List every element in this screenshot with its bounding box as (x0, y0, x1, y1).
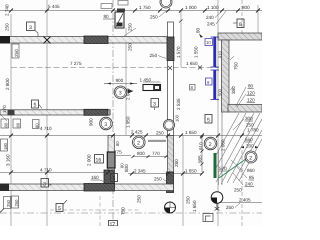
svg-text:2: 2 (209, 142, 212, 148)
label box 17 bottom (109, 221, 118, 227)
svg-text:250: 250 (186, 196, 191, 204)
svg-text:250: 250 (156, 131, 164, 136)
svg-text:775: 775 (114, 150, 122, 155)
svg-text:5: 5 (58, 206, 61, 212)
wall B hatched lower part (168, 136, 174, 173)
svg-text:250: 250 (6, 199, 11, 207)
dash-dot line y=213 (0, 212, 262, 214)
grid dim line y=135.5 (0, 135, 262, 137)
svg-text:5 445: 5 445 (48, 4, 60, 9)
svg-text:1 450: 1 450 (140, 78, 152, 83)
svg-text:80: 80 (196, 27, 201, 33)
svg-text:170: 170 (2, 105, 7, 113)
svg-text:300: 300 (245, 116, 253, 121)
svg-text:3: 3 (119, 91, 122, 97)
tick X at 200,67 (198, 66, 202, 70)
dim line horizontal y=10.5 top chain (0, 10, 262, 12)
svg-text:180: 180 (3, 142, 8, 150)
leader bottom-left corner (0, 114, 7, 121)
wall B dark pier top (167, 37, 174, 61)
svg-text:750: 750 (121, 207, 126, 215)
svg-text:80: 80 (4, 122, 9, 127)
svg-text:2: 2 (137, 141, 140, 147)
wall edge x=218.5 stair (218, 150, 220, 185)
ticks on grid dim line y=135.5 (9, 134, 244, 138)
wall A black pier left (0, 36, 10, 44)
small rect top edge right (118, 1, 128, 6)
svg-text:8: 8 (239, 22, 242, 28)
leaders right mid stack (236, 87, 246, 106)
section marker circle bottom right (211, 192, 223, 204)
wall H bottom horizontal (0, 184, 174, 191)
svg-text:245: 245 (207, 22, 215, 27)
svg-text:80: 80 (104, 14, 110, 19)
wall A dark pier center (84, 36, 108, 44)
dark blob above dim line (117, 9, 125, 12)
svg-text:380: 380 (231, 86, 236, 94)
leaders for 750/380 (230, 56, 234, 60)
ticks on line y=172.5 (9, 171, 204, 176)
svg-text:1 650: 1 650 (192, 200, 197, 212)
axis line vertical x=242 dashed (241, 0, 243, 33)
axis bubble at wall B mid (164, 120, 175, 131)
axis line vertical x=11 (10, 14, 12, 226)
label box 5 bottom center (111, 174, 118, 182)
svg-text:200: 200 (246, 144, 254, 149)
svg-text:860: 860 (247, 168, 255, 173)
svg-text:250: 250 (150, 15, 158, 20)
svg-text:1 780: 1 780 (247, 128, 259, 133)
svg-text:250: 250 (128, 43, 133, 51)
svg-text:5: 5 (113, 176, 116, 182)
svg-text:16: 16 (96, 157, 102, 163)
svg-text:2 740: 2 740 (5, 4, 10, 16)
svg-text:4 710: 4 710 (40, 168, 52, 173)
svg-text:3: 3 (153, 101, 156, 107)
grid bubble 2 b (204, 137, 217, 150)
dashed overhead line y=67.5 (11, 67, 218, 69)
label box 5 right (205, 115, 212, 124)
grid bubble 2 a (133, 136, 146, 149)
svg-text:7 275: 7 275 (70, 61, 82, 66)
axis line vertical x=183 lower (182, 135, 184, 226)
label box 10 blue (205, 39, 213, 46)
label box 3 center (151, 99, 159, 108)
svg-text:85: 85 (249, 175, 255, 180)
svg-text:810: 810 (199, 142, 204, 150)
axis tick X on wall A at x=47 (44, 37, 51, 44)
grid bubble 3 a (114, 86, 127, 99)
label box 3 top left (27, 22, 36, 31)
svg-text:80: 80 (115, 141, 120, 146)
svg-text:1 100: 1 100 (207, 5, 219, 10)
window W9 blue bar lower (213, 70, 216, 100)
tiny box B right of wall (190, 85, 196, 91)
dim line for 1450 (143, 81, 161, 83)
svg-text:3 160: 3 160 (6, 154, 11, 166)
svg-text:250: 250 (128, 23, 133, 31)
svg-text:1 950: 1 950 (126, 116, 131, 128)
grid bubble 3 b (100, 117, 113, 130)
boxed 250 rot bottom a (4, 197, 11, 209)
svg-text:1 000: 1 000 (185, 5, 197, 10)
wall B dark pier bottom (167, 172, 174, 193)
svg-text:250: 250 (226, 205, 234, 210)
svg-text:250: 250 (14, 49, 19, 57)
axis line vertical x=113 dash-dot (112, 0, 114, 226)
svg-text:10: 10 (206, 40, 211, 45)
section marker circle center bottom (165, 202, 176, 213)
svg-text:900: 900 (89, 118, 94, 126)
svg-text:910: 910 (218, 50, 223, 58)
label box 16 (95, 155, 104, 164)
wall A top horizontal (0, 37, 174, 44)
svg-text:550: 550 (245, 137, 253, 142)
svg-text:5: 5 (207, 117, 210, 123)
svg-text:250: 250 (5, 23, 10, 31)
axis line vertical x=181 (180, 11, 182, 67)
svg-text:80: 80 (16, 122, 21, 127)
column symbol top (115, 12, 124, 28)
svg-text:2 535: 2 535 (176, 98, 181, 110)
wall edge x=222 below (221, 112, 223, 185)
wall F dark pier at axis (8, 110, 15, 116)
wall B vertical center-right (168, 22, 174, 136)
svg-text:1 570: 1 570 (176, 46, 181, 58)
wall G vertical left-center (108, 136, 114, 191)
vertical dim line x=202 with ticks (201, 136, 203, 172)
dim line y=202.5 bottom right (218, 202, 262, 204)
ticks on top dim line y=10.5 (9, 9, 260, 13)
axis line vertical x=258 (257, 5, 259, 33)
wall G dark stub (104, 170, 114, 184)
grid bubble 2 c (245, 151, 257, 163)
boxed 80 rot a (1, 119, 9, 128)
svg-text:1 650: 1 650 (185, 130, 197, 135)
window W10 blue bar upper (213, 37, 216, 68)
wall H dark pier center (84, 184, 115, 192)
svg-text:2 000: 2 000 (87, 154, 92, 166)
svg-text:2 405: 2 405 (239, 198, 251, 203)
wall D right vertical (222, 40, 230, 112)
svg-text:240: 240 (206, 15, 214, 20)
svg-text:250: 250 (14, 199, 19, 207)
svg-text:500: 500 (218, 88, 223, 96)
small stepped rect bottom right (203, 214, 213, 222)
svg-text:120: 120 (247, 98, 255, 103)
tick bottom left edge (0, 209, 4, 213)
svg-text:80: 80 (35, 123, 40, 128)
svg-text:2 345: 2 345 (134, 169, 146, 174)
svg-text:2 425: 2 425 (131, 130, 143, 135)
svg-text:3: 3 (29, 25, 32, 31)
wall F dark pier center (84, 109, 108, 115)
dashed line bottom room y=210 (50, 209, 140, 211)
svg-text:250: 250 (246, 123, 254, 128)
svg-text:80: 80 (120, 163, 125, 168)
svg-text:900: 900 (116, 78, 124, 83)
svg-text:1 650: 1 650 (185, 169, 197, 174)
axis line vertical x=218 (217, 0, 219, 226)
wall H black pier left (0, 184, 9, 192)
svg-text:250: 250 (154, 177, 162, 182)
label box 3 bottom left (41, 179, 49, 188)
svg-text:4 710: 4 710 (40, 126, 52, 131)
stair diagonal hatch bottom-right (216, 113, 262, 184)
label box 8 top right (237, 19, 244, 28)
arrow blob near bubble 3a (128, 89, 134, 94)
svg-text:80: 80 (248, 84, 254, 89)
svg-text:800: 800 (137, 151, 145, 156)
door lintel gray bar (148, 140, 166, 142)
boxed 80 rot c (33, 120, 40, 129)
leaders right upper stack (233, 119, 244, 130)
boxed 180 rot (1, 139, 8, 151)
svg-text:280: 280 (174, 159, 179, 167)
svg-text:800: 800 (124, 164, 129, 172)
svg-text:750: 750 (234, 62, 239, 70)
svg-text:770: 770 (152, 151, 160, 156)
svg-text:800: 800 (242, 5, 250, 10)
label box 5 bottom left (56, 204, 63, 212)
svg-text:2 060: 2 060 (221, 139, 226, 151)
svg-text:570: 570 (219, 166, 227, 171)
dim line vertical x=126 (125, 28, 127, 135)
label box 5 mid left (32, 100, 39, 108)
dim text 250 rot boxed (12, 44, 19, 58)
window 1450 plan box (143, 85, 161, 91)
wall E right horizontal lower (228, 105, 262, 113)
svg-text:100: 100 (175, 114, 180, 122)
svg-text:250: 250 (137, 195, 142, 203)
svg-text:2 800: 2 800 (5, 78, 10, 90)
axis line vertical x=47 (46, 0, 48, 226)
wall F mid-left horizontal (0, 110, 110, 115)
svg-text:3: 3 (43, 181, 46, 187)
svg-text:3: 3 (104, 122, 107, 128)
svg-text:250: 250 (150, 53, 158, 58)
green bar (railing) (214, 153, 217, 178)
small rect top edge left (101, 4, 112, 9)
svg-text:1 550: 1 550 (194, 46, 199, 58)
wall C top-right horizontal (218, 33, 262, 40)
wall G window box (107, 152, 115, 168)
dim line y=173.5 right (128, 173, 202, 175)
svg-text:17: 17 (110, 222, 116, 226)
boxed 250 rot bottom b (12, 196, 19, 208)
label box 9 blue (206, 78, 213, 85)
dim line y=172.5 left (0, 172, 113, 174)
boxed 80 rot b (13, 119, 21, 128)
svg-text:250: 250 (234, 188, 242, 193)
svg-text:240: 240 (245, 182, 253, 187)
tick X at 170,68 (168, 66, 172, 70)
svg-text:120: 120 (247, 91, 255, 96)
svg-text:2: 2 (249, 155, 252, 161)
svg-text:5: 5 (34, 103, 37, 109)
dashed vertical x=100 bottom (99, 196, 101, 226)
grid bubble 6 top (160, 0, 172, 8)
svg-text:1 650: 1 650 (186, 61, 198, 66)
svg-text:1 750: 1 750 (139, 5, 151, 10)
green stair leader (219, 156, 250, 178)
leaders bottom right stack (231, 160, 243, 171)
end cap wall F (109, 110, 111, 116)
svg-text:160: 160 (91, 175, 99, 180)
